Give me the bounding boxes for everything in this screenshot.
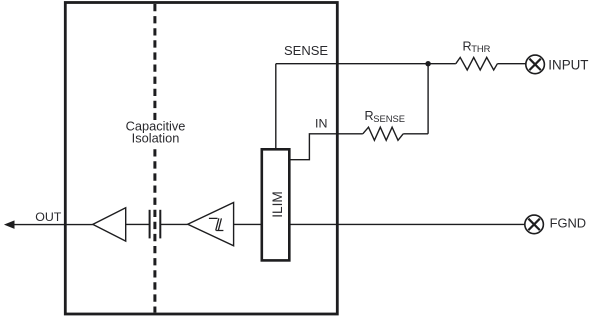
node junction at R_THR / R_SENSE [425,61,430,66]
resistor R_THR [456,57,498,70]
wire OUT with arrowhead [5,221,93,228]
terminal FGND (circle-X) [525,215,544,234]
terminal INPUT (circle-X) [526,55,545,74]
svg-text:THR: THR [471,43,490,54]
wire FGND from ILIM right side [290,223,525,225]
svg-text:SENSE: SENSE [373,113,405,124]
wire IN from R_SENSE left [290,134,363,160]
svg-text:SENSE: SENSE [284,43,328,58]
wire node vertical to R_SENSE [427,64,429,134]
buffer U3 (triangle) [93,208,126,241]
wire SENSE vertical drop to ILIM [275,64,277,150]
label R_SENSE [365,109,405,124]
wire R_SENSE right to node vertical [403,133,428,135]
hysteresis symbol inside U2 [209,218,224,230]
svg-text:INPUT: INPUT [548,57,588,72]
wire ILIM left to schmitt buffer [234,223,262,225]
capacitor C1 (isolation) [150,210,161,239]
IC body outline U1 [65,3,337,315]
wire R_THR to INPUT terminal [497,63,525,65]
resistor R_SENSE [363,127,403,140]
wire U2 apex to capacitor [160,223,187,225]
svg-text:OUT: OUT [35,210,62,224]
label: Capacitive Isolation [120,119,191,146]
block ILIM [262,149,290,260]
wire capacitor to buffer U3 [126,223,150,225]
schmitt buffer U2 (triangle) [188,203,234,246]
svg-text:Isolation: Isolation [132,131,180,146]
svg-text:FGND: FGND [550,215,587,230]
svg-text:IN: IN [315,117,327,131]
label R_THR [463,39,491,54]
svg-text:ILIM: ILIM [270,191,285,217]
isolation barrier dashed line [153,4,156,313]
wire SENSE horizontal [276,63,456,65]
